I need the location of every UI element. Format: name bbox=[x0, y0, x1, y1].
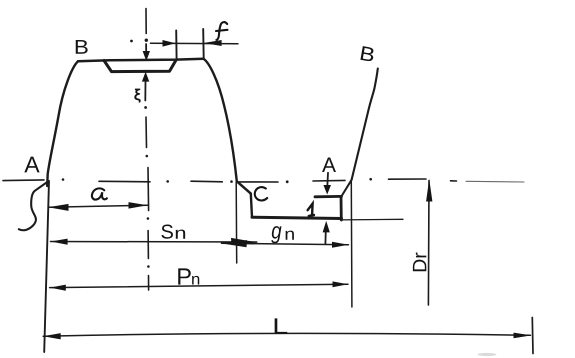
label j root depth bbox=[308, 204, 314, 216]
label Sn bbox=[161, 225, 173, 239]
root left chamfer bbox=[237, 181, 251, 193]
xi up arrow shaft bbox=[144, 81, 146, 101]
label c bbox=[255, 187, 267, 200]
root detail top line bbox=[315, 195, 342, 198]
axis faint right dash bbox=[466, 180, 524, 183]
extension line at 351 bbox=[350, 182, 353, 308]
faint smudge bottom right bbox=[478, 353, 497, 356]
a left arrowhead bbox=[48, 204, 68, 211]
label A left bbox=[24, 157, 39, 173]
label L bbox=[275, 318, 288, 333]
gn left arrowhead bbox=[221, 240, 248, 247]
dimension a line bbox=[48, 205, 147, 207]
root detail right wall bbox=[340, 197, 343, 221]
label a bbox=[92, 188, 107, 199]
right tooth left flank bbox=[352, 69, 378, 180]
root right chamfer bbox=[341, 180, 352, 197]
dimension gn line bbox=[222, 243, 349, 245]
L left arrowhead bbox=[43, 333, 61, 339]
dimension Sn line bbox=[51, 241, 257, 244]
A arrow shaft bbox=[326, 173, 329, 187]
label xi bbox=[135, 89, 141, 102]
label gn bbox=[271, 226, 281, 243]
arrowheads bbox=[43, 40, 531, 339]
extension line at 236 bbox=[235, 182, 238, 263]
dimension Pn line bbox=[50, 284, 348, 287]
left tooth left flank bbox=[47, 61, 78, 186]
break squiggle below A bbox=[19, 182, 48, 230]
root bottom land bbox=[252, 217, 342, 218]
Sn right arrowhead bbox=[231, 238, 258, 245]
L right extension bbox=[531, 318, 534, 354]
left tooth crest top land bbox=[78, 59, 204, 62]
Sn left arrowhead bbox=[51, 239, 68, 245]
a right arrowhead bbox=[129, 202, 148, 209]
root left wall bbox=[251, 194, 252, 218]
label f bbox=[216, 22, 228, 40]
left tooth right flank bbox=[204, 59, 237, 182]
label Pn bbox=[178, 268, 191, 284]
label B right bbox=[360, 46, 373, 61]
horizontal pitch axis dash-dot bbox=[3, 179, 457, 182]
label A right bbox=[322, 158, 336, 172]
vertical tooth centerline dash-dot bbox=[146, 9, 149, 291]
root up arrowhead bbox=[323, 221, 330, 233]
xi up arrowhead bbox=[142, 72, 149, 82]
extension line f right bbox=[202, 29, 205, 59]
axis dots bbox=[62, 178, 372, 183]
gn right arrowhead bbox=[332, 242, 349, 248]
extension line f left bbox=[175, 30, 177, 59]
Pn right arrowhead bbox=[333, 281, 349, 287]
L right arrowhead bbox=[514, 333, 532, 339]
xi down arrow shaft bbox=[145, 44, 147, 53]
f left arrowhead bbox=[163, 40, 176, 47]
Dr up arrowhead bbox=[426, 179, 432, 202]
dimension L line bbox=[43, 333, 530, 336]
A down arrowhead bbox=[323, 185, 331, 195]
left measure extension line bbox=[44, 181, 49, 352]
label Dr rotated bbox=[413, 253, 426, 272]
f right arrowhead bbox=[204, 40, 222, 46]
label B left bbox=[76, 40, 88, 54]
dimension Dr vertical line bbox=[427, 181, 430, 306]
crest notch groove bbox=[104, 60, 176, 72]
Pn left arrowhead bbox=[50, 285, 66, 291]
root level reference line bbox=[341, 218, 403, 221]
root up arrow shaft bbox=[324, 230, 326, 244]
xi down arrowhead bbox=[143, 51, 150, 61]
dimension f line bbox=[151, 42, 239, 44]
